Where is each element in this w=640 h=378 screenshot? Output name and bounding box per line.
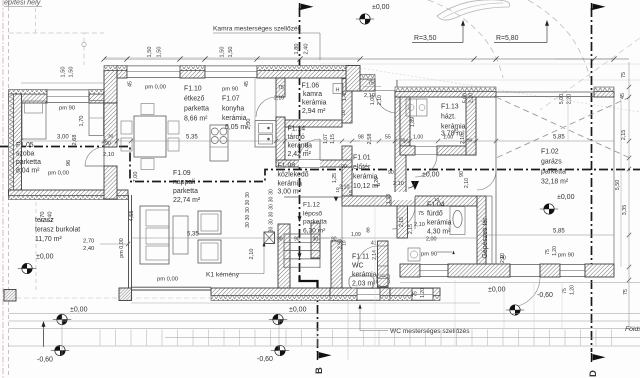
door opening kozlekedo-eloter xyxy=(342,122,352,124)
chimney K1 square with cross xyxy=(264,232,275,244)
svg-text:F1.13: F1.13 xyxy=(441,104,459,111)
svg-text:1,80: 1,80 xyxy=(294,44,300,55)
svg-text:parketta: parketta xyxy=(173,188,198,195)
svg-text:terasz: terasz xyxy=(35,217,54,224)
svg-text:2,70: 2,70 xyxy=(83,239,94,245)
svg-text:1,50: 1,50 xyxy=(228,47,234,58)
svg-text:Kamra mesterséges szellőzés: Kamra mesterséges szellőzés xyxy=(213,26,302,33)
wall: garage south segment xyxy=(540,264,560,277)
garage ceiling X dashed xyxy=(496,97,630,158)
svg-text:±0,00: ±0,00 xyxy=(372,4,390,11)
svg-text:kerámia: kerámia xyxy=(427,220,452,227)
wall: entry east wall / garage west xyxy=(395,91,406,196)
wall: stairs middle block xyxy=(311,223,320,258)
svg-text:4,30 m²: 4,30 m² xyxy=(427,229,451,236)
svg-text:75: 75 xyxy=(562,288,568,294)
garage dim 5,85 lower xyxy=(477,234,614,236)
faint diagonal dashed from top right xyxy=(540,38,640,110)
turning curve R=3,50 dashed arc xyxy=(428,0,503,78)
svg-text:98: 98 xyxy=(358,135,364,141)
wall: garage north-east pier xyxy=(594,92,614,98)
wall: south wall right wing west part xyxy=(400,264,420,277)
svg-text:1,00: 1,00 xyxy=(370,95,376,105)
svg-text:3,00: 3,00 xyxy=(57,135,69,141)
svg-text:8,66 m²: 8,66 m² xyxy=(184,116,208,123)
svg-text:96: 96 xyxy=(66,160,72,166)
svg-text:Földszinti alaprajz: Földszinti alaprajz xyxy=(625,326,640,333)
svg-text:H: H xyxy=(336,88,340,94)
glazing: nappali south (terrace) xyxy=(132,286,212,288)
section line A horizontal stepped dash-dot xyxy=(0,147,640,182)
door wc xyxy=(378,245,389,247)
svg-text:2,68: 2,68 xyxy=(72,135,78,146)
svg-text:pm 90: pm 90 xyxy=(421,252,437,258)
window szoba north xyxy=(47,90,89,104)
svg-text:30: 30 xyxy=(245,192,251,198)
svg-text:5,85: 5,85 xyxy=(553,135,565,141)
svg-text:10,12 m²: 10,12 m² xyxy=(353,183,381,190)
door konyha-kamra with swing arc xyxy=(256,97,276,117)
wall: kamra east / eloter west upper xyxy=(342,79,352,124)
svg-text:±0,00: ±0,00 xyxy=(488,287,506,294)
dining chair top xyxy=(141,104,154,115)
svg-text:2,10: 2,10 xyxy=(377,95,383,105)
svg-text:pm 90: pm 90 xyxy=(558,253,574,259)
second vertical dim line right x=621 xyxy=(620,97,622,267)
south wall base line right wing xyxy=(400,282,640,284)
wall: corner piece north-west of main wing xyxy=(104,71,117,104)
svg-text:±0,00: ±0,00 xyxy=(70,307,88,314)
svg-text:30: 30 xyxy=(245,222,251,228)
vertical guides at level marks xyxy=(61,313,63,356)
svg-text:22,74 m²: 22,74 m² xyxy=(173,197,201,204)
coffee table nappali xyxy=(173,216,188,254)
svg-text:1,07: 1,07 xyxy=(323,134,329,144)
svg-text:F1.06: F1.06 xyxy=(302,83,320,90)
dining chairs left xyxy=(121,121,132,134)
svg-text:90: 90 xyxy=(105,141,111,147)
svg-text:88: 88 xyxy=(366,227,372,233)
door F1.13 with swing arc xyxy=(415,146,437,148)
svg-text:90: 90 xyxy=(459,171,465,177)
bed in szoba xyxy=(22,101,46,139)
window wc south xyxy=(357,288,380,301)
svg-text:30: 30 xyxy=(313,237,319,243)
svg-text:90: 90 xyxy=(294,237,300,243)
section flag B bottom with letter xyxy=(319,352,332,359)
wall: F1.13 south wall west part xyxy=(400,146,415,155)
svg-text:30: 30 xyxy=(269,227,275,233)
svg-text:F1.02: F1.02 xyxy=(541,149,559,156)
svg-text:30: 30 xyxy=(269,212,275,218)
wall: kamra south / tarolo partition xyxy=(285,120,342,127)
svg-text:2,42 m²: 2,42 m² xyxy=(288,151,312,158)
armchair nappali bottom xyxy=(198,240,221,263)
stair treads xyxy=(284,233,320,235)
svg-text:kerámia: kerámia xyxy=(441,124,466,131)
washer in pm90 room xyxy=(408,248,420,261)
wall: wc east wall xyxy=(378,241,389,287)
svg-text:7,00: 7,00 xyxy=(133,172,139,183)
wall: szoba south / terrace edge xyxy=(9,190,129,196)
svg-text:5,00: 5,00 xyxy=(559,94,565,105)
svg-text:tároló: tároló xyxy=(288,134,305,141)
svg-text:75: 75 xyxy=(621,72,627,78)
svg-text:pm 0,00: pm 0,00 xyxy=(145,85,166,91)
site boundary line (building line, left) xyxy=(2,0,4,378)
wall: gepeszeti ter east wall / garage west xyxy=(492,96,496,98)
svg-text:garázs: garázs xyxy=(541,159,562,166)
svg-text:nappali: nappali xyxy=(173,179,196,186)
svg-text:2,03 m²: 2,03 m² xyxy=(352,281,376,288)
svg-text:2,10: 2,10 xyxy=(414,222,425,228)
svg-text:±0,00: ±0,00 xyxy=(422,172,440,179)
svg-text:F1.04: F1.04 xyxy=(427,202,445,209)
wall: szoba east wall lower xyxy=(104,166,117,199)
window in south wall of right wing (west) xyxy=(420,264,448,277)
svg-text:lépcső: lépcső xyxy=(303,211,322,218)
kitchen sink unit on east wall xyxy=(255,121,276,148)
svg-text:D: D xyxy=(588,370,599,377)
wall: F1.13 east wall xyxy=(466,97,476,155)
garage side door opening south xyxy=(510,264,540,266)
svg-text:2,15: 2,15 xyxy=(399,217,405,227)
dining chair bottom xyxy=(141,159,154,170)
svg-text:75: 75 xyxy=(413,291,419,297)
wall: tarolo south xyxy=(276,160,352,167)
svg-text:parketta: parketta xyxy=(541,169,566,176)
wall: west exterior of szoba xyxy=(14,94,22,199)
faint sight line diagonal xyxy=(360,68,640,112)
gepeszeti ter north line xyxy=(477,195,492,197)
svg-text:32,18 m²: 32,18 m² xyxy=(541,179,569,186)
svg-text:2,20: 2,20 xyxy=(567,94,573,105)
window etkezo north 1 xyxy=(127,66,180,79)
svg-text:kerámia: kerámia xyxy=(278,181,303,188)
svg-text:45: 45 xyxy=(128,81,134,87)
svg-text:30: 30 xyxy=(467,138,473,144)
svg-text:30: 30 xyxy=(277,237,283,243)
svg-text:55: 55 xyxy=(385,135,391,141)
svg-text:kerámia: kerámia xyxy=(222,115,247,122)
svg-text:30: 30 xyxy=(269,219,275,225)
wall: gepeszeti ter west wall xyxy=(477,196,486,264)
svg-text:90: 90 xyxy=(388,170,394,176)
pillar nappali glazing corner xyxy=(119,288,132,301)
svg-text:étkező: étkező xyxy=(184,96,204,103)
fridge symbol H in kamra xyxy=(333,84,343,94)
svg-text:45: 45 xyxy=(620,93,626,99)
svg-text:F1.12: F1.12 xyxy=(303,202,320,209)
svg-text:10: 10 xyxy=(341,110,347,116)
garage interior east boundary thin line xyxy=(613,97,615,264)
svg-text:30: 30 xyxy=(269,204,275,210)
svg-text:terasz burkolat: terasz burkolat xyxy=(35,227,80,234)
svg-text:3,35: 3,35 xyxy=(622,205,628,216)
svg-text:5,35: 5,35 xyxy=(186,135,198,141)
svg-text:2,10: 2,10 xyxy=(339,185,350,191)
wall: south wall of nappali/etkezo wing xyxy=(211,288,358,296)
svg-text:2,10: 2,10 xyxy=(103,152,114,158)
svg-text:±0,00: ±0,00 xyxy=(36,254,54,261)
dining chairs right xyxy=(168,121,179,134)
svg-text:pm 90: pm 90 xyxy=(59,106,75,112)
svg-text:6,05 m²: 6,05 m² xyxy=(225,124,249,131)
svg-text:2,00: 2,00 xyxy=(426,237,437,243)
svg-text:90: 90 xyxy=(331,237,337,243)
svg-text:8,04 m²: 8,04 m² xyxy=(16,168,40,175)
svg-text:WC: WC xyxy=(352,263,364,270)
vertical guide lines to bottom xyxy=(347,300,349,360)
wall: konyha east / kamra west upper xyxy=(276,78,285,97)
svg-text:1,15: 1,15 xyxy=(330,134,336,144)
svg-text:3,78 m²: 3,78 m² xyxy=(441,131,465,138)
faint line across garage forecourt xyxy=(320,63,640,65)
svg-text:B: B xyxy=(314,367,325,374)
wall: bath block north wall (corridor south) xyxy=(342,196,477,206)
svg-text:1,09: 1,09 xyxy=(351,232,361,238)
kitchen hob counter with 4 burners xyxy=(210,125,228,161)
svg-text:kerámia: kerámia xyxy=(352,272,377,279)
svg-text:pm 90: pm 90 xyxy=(222,87,238,93)
wall: eloter north wall (recessed entry) xyxy=(352,79,375,91)
light guide line right wing top xyxy=(395,79,640,81)
bath dim 2,00 xyxy=(407,237,477,239)
window konyha north xyxy=(205,66,257,79)
interior dim chain y=141 (entry part) xyxy=(352,140,496,142)
wall: szoba north, east segment xyxy=(89,94,104,103)
wall: wc west wall xyxy=(331,241,342,288)
svg-text:1,50: 1,50 xyxy=(147,47,153,58)
wall: stairs west wall xyxy=(278,224,290,288)
svg-text:5,35: 5,35 xyxy=(187,232,199,238)
svg-text:30: 30 xyxy=(245,215,251,221)
property dashed line left xyxy=(8,0,10,378)
armchair nappali top xyxy=(198,211,221,234)
stair top edge line xyxy=(284,196,342,198)
svg-text:kamra: kamra xyxy=(303,91,322,98)
washer dryer appliances in F1.13 xyxy=(406,99,427,116)
door bath interior leaf xyxy=(407,206,409,238)
svg-text:pm 0,00: pm 0,00 xyxy=(119,238,125,257)
svg-text:1,20: 1,20 xyxy=(570,285,576,295)
section line D vertical dash-dot with flags xyxy=(591,8,593,352)
interior dim chain y=141 (left wing) xyxy=(21,140,360,142)
svg-text:75: 75 xyxy=(278,85,284,91)
stair dim line across xyxy=(278,237,344,239)
wall: main north wall segment 1 xyxy=(117,71,127,79)
glazing: nappali west (terrace) xyxy=(128,195,130,288)
svg-text:F1.05: F1.05 xyxy=(16,142,34,149)
svg-text:75: 75 xyxy=(545,249,551,255)
svg-text:1,40: 1,40 xyxy=(342,91,348,101)
terrace steps and driveway lines xyxy=(9,313,640,315)
svg-text:F1.09: F1.09 xyxy=(173,170,191,177)
svg-text:pm 0,00: pm 0,00 xyxy=(157,277,178,283)
svg-text:2,94 m²: 2,94 m² xyxy=(302,108,326,115)
door szoba (90) with swing arc xyxy=(103,147,105,166)
svg-text:30: 30 xyxy=(269,189,275,195)
door garage to gepeszeti ter with arc xyxy=(491,171,497,191)
wardrobe in szoba xyxy=(89,101,104,136)
wall: kamra east / eloter west lower xyxy=(342,146,352,196)
svg-text:5,85: 5,85 xyxy=(553,229,565,235)
wall: garage south-east corner xyxy=(585,264,614,277)
bath sink oval xyxy=(450,207,465,235)
arrow up near -0,60 left xyxy=(43,326,45,347)
terrace south edge light dashed xyxy=(16,297,210,299)
svg-text:2,10: 2,10 xyxy=(274,96,284,102)
svg-text:parketta: parketta xyxy=(303,219,327,226)
wall: north wall of right wing (hazt/garage) xyxy=(395,92,496,98)
svg-text:10: 10 xyxy=(342,240,347,246)
section line B vertical dash-dot with flags xyxy=(300,8,318,352)
garage right vertical helper xyxy=(567,97,569,141)
svg-text:45: 45 xyxy=(244,81,250,87)
svg-text:kerámia: kerámia xyxy=(353,174,378,181)
wall: szoba north, west segment xyxy=(9,94,48,103)
svg-text:2,10: 2,10 xyxy=(464,178,470,188)
svg-text:kerámia: kerámia xyxy=(288,143,313,150)
sofa large in nappali xyxy=(140,206,169,264)
svg-text:4,55: 4,55 xyxy=(129,211,135,222)
svg-text:1,50: 1,50 xyxy=(61,67,67,78)
svg-text:házt.: házt. xyxy=(441,114,456,121)
svg-text:1,33: 1,33 xyxy=(386,194,392,204)
svg-text:R=3,50: R=3,50 xyxy=(414,35,437,42)
svg-text:30: 30 xyxy=(108,134,114,140)
svg-text:30: 30 xyxy=(245,200,251,206)
svg-text:-0,60: -0,60 xyxy=(37,357,53,364)
wall: szoba east wall upper (to door) xyxy=(104,103,117,147)
svg-text:75: 75 xyxy=(368,81,374,87)
small circle marker top-left xyxy=(82,42,86,46)
wall: konyha east / kamra west lower xyxy=(276,117,285,163)
svg-text:1,50: 1,50 xyxy=(157,47,163,58)
svg-text:R=5,80: R=5,80 xyxy=(496,35,519,42)
svg-text:F1.10: F1.10 xyxy=(184,86,202,93)
svg-text:Gépészeti tér: Gépészeti tér xyxy=(482,217,489,259)
svg-text:1,25: 1,25 xyxy=(332,173,338,183)
paving joint ticks xyxy=(99,330,101,346)
svg-text:30: 30 xyxy=(400,138,406,144)
svg-text:30: 30 xyxy=(269,197,275,203)
window garage south xyxy=(560,264,585,277)
svg-text:75: 75 xyxy=(623,289,629,295)
section line B jog solid xyxy=(300,276,318,289)
svg-text:WC mesterséges szellőzés: WC mesterséges szellőzés xyxy=(390,328,470,335)
wall: bath west wall xyxy=(397,206,408,238)
nappali dim 5,35 lower chain xyxy=(131,237,330,239)
svg-text:2,40: 2,40 xyxy=(83,246,94,252)
short vertical dashed top-left xyxy=(35,8,37,33)
svg-text:1,50: 1,50 xyxy=(220,47,226,58)
section flag D top xyxy=(593,4,606,11)
entry door opening and swing xyxy=(374,80,376,91)
roof overhang dashed vertical over terrace xyxy=(35,202,37,290)
corridor dim line and small dims xyxy=(342,237,397,239)
south wall base line left wing xyxy=(131,302,480,304)
svg-text:2,10: 2,10 xyxy=(500,253,506,263)
svg-text:10: 10 xyxy=(348,190,353,196)
svg-text:2,20: 2,20 xyxy=(469,93,475,103)
svg-text:-0,60: -0,60 xyxy=(537,292,553,299)
wall: main north wall segment 3 xyxy=(257,71,358,79)
svg-text:2,10: 2,10 xyxy=(249,249,255,260)
svg-text:kerámia: kerámia xyxy=(302,100,327,107)
garage north opening (garage door) xyxy=(496,91,594,93)
svg-text:parketta: parketta xyxy=(184,106,209,113)
top dimension chain xyxy=(104,58,629,60)
svg-text:5,50: 5,50 xyxy=(615,180,621,191)
svg-text:3,00 m²: 3,00 m² xyxy=(278,189,302,196)
svg-text:F1.07: F1.07 xyxy=(222,96,240,103)
svg-text:1,20: 1,20 xyxy=(420,288,426,298)
svg-text:1,70: 1,70 xyxy=(79,116,85,127)
svg-text:1,89: 1,89 xyxy=(410,117,416,127)
kitchen counter east boundary line xyxy=(254,78,256,120)
svg-text:90: 90 xyxy=(341,164,347,170)
roof overhang dashed rectangle over terrace (top-left) xyxy=(9,33,105,65)
wall: main north wall segment 2 xyxy=(180,71,205,79)
svg-text:F1.08: F1.08 xyxy=(278,163,296,170)
svg-text:1,00: 1,00 xyxy=(413,135,423,141)
svg-text:2,58: 2,58 xyxy=(367,134,373,145)
svg-text:pm 0,00: pm 0,00 xyxy=(48,171,69,177)
section flag D bottom with letter xyxy=(593,354,606,361)
svg-text:11,70 m²: 11,70 m² xyxy=(35,236,62,243)
wall: south wall center (wc block) xyxy=(330,288,390,296)
svg-text:szoba: szoba xyxy=(16,151,35,158)
svg-text:közlekedő: közlekedő xyxy=(278,172,309,179)
vertical dim chain right edge x=629 xyxy=(628,62,630,330)
pillar terrace south-west xyxy=(4,290,16,302)
svg-text:2,10: 2,10 xyxy=(393,181,404,187)
svg-text:±0,00: ±0,00 xyxy=(289,307,307,314)
roof overhang light line above north wall xyxy=(104,57,360,59)
stair walking arrows (down) xyxy=(298,216,302,222)
dining table xyxy=(134,116,166,157)
garage interior dim 5,85 upper xyxy=(496,140,614,142)
svg-text:konyha: konyha xyxy=(222,106,244,113)
svg-text:előtér: előtér xyxy=(353,164,371,171)
svg-text:6,30 m²: 6,30 m² xyxy=(303,228,326,235)
wall: south wall bath block east part xyxy=(390,288,440,296)
svg-text:75: 75 xyxy=(418,211,424,217)
svg-text:2,15: 2,15 xyxy=(621,130,627,141)
svg-text:parketta: parketta xyxy=(16,159,41,166)
svg-text:K1 kémény: K1 kémény xyxy=(206,272,240,279)
stairs-wc boundary thin line xyxy=(341,206,343,241)
svg-text:1,50: 1,50 xyxy=(69,67,75,78)
svg-text:fürdő: fürdő xyxy=(427,211,443,218)
svg-text:F1.11: F1.11 xyxy=(352,254,369,261)
door tarolo with swing arc xyxy=(299,160,320,167)
wall: F1.13 west wall xyxy=(400,97,410,146)
door opening corridor-bath xyxy=(391,192,415,200)
svg-text:F1.14: F1.14 xyxy=(288,126,306,133)
wall: south wall right wing mid xyxy=(448,264,510,277)
svg-text:F1.01: F1.01 xyxy=(353,155,371,162)
wall: F1.13 south wall east part xyxy=(437,146,476,155)
wall: entry north-west corner block xyxy=(346,66,360,92)
svg-text:2,40: 2,40 xyxy=(304,44,310,55)
section flag B top xyxy=(301,4,314,11)
turning curve R=5,80 dashed arc xyxy=(528,0,590,78)
svg-text:30: 30 xyxy=(245,207,251,213)
svg-text:41: 41 xyxy=(371,241,377,247)
svg-text:építési hely: építési hely xyxy=(4,0,41,7)
